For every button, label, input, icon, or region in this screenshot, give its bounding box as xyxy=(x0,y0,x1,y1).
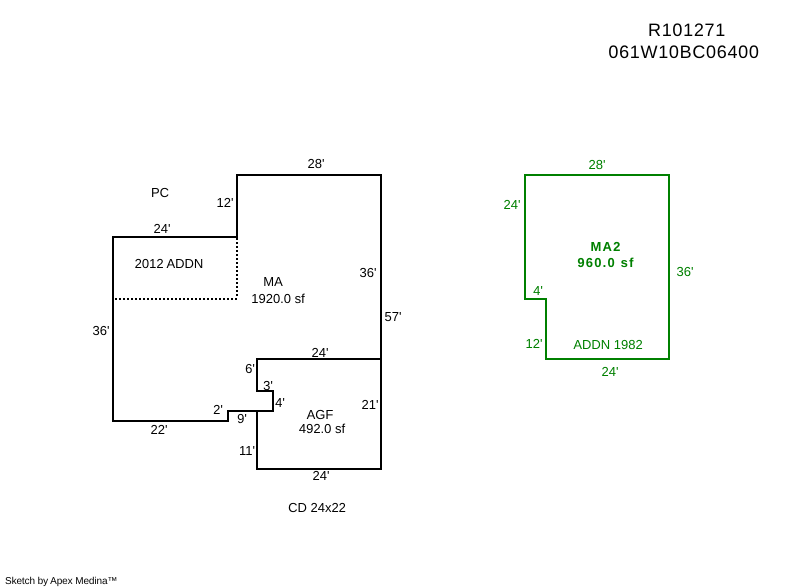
svg-text:11': 11' xyxy=(239,443,255,458)
svg-text:12': 12' xyxy=(526,336,543,351)
svg-text:492.0 sf: 492.0 sf xyxy=(299,421,346,436)
svg-text:36': 36' xyxy=(360,265,377,280)
svg-text:12': 12' xyxy=(217,195,234,210)
svg-text:960.0 sf: 960.0 sf xyxy=(577,255,634,270)
svg-text:1920.0 sf: 1920.0 sf xyxy=(251,291,305,306)
svg-text:24': 24' xyxy=(154,221,171,236)
svg-text:4': 4' xyxy=(533,283,543,298)
svg-text:28': 28' xyxy=(589,157,606,172)
svg-text:9': 9' xyxy=(237,411,247,426)
svg-text:36': 36' xyxy=(677,264,694,279)
svg-text:24': 24' xyxy=(602,364,619,379)
svg-text:PC: PC xyxy=(151,185,169,200)
svg-text:24': 24' xyxy=(504,197,521,212)
svg-text:24': 24' xyxy=(313,468,330,483)
svg-text:061W10BC06400: 061W10BC06400 xyxy=(608,42,759,62)
svg-text:MA2: MA2 xyxy=(590,239,621,254)
svg-text:R101271: R101271 xyxy=(648,20,726,40)
svg-text:4': 4' xyxy=(275,395,285,410)
svg-text:Sketch by Apex Medina™: Sketch by Apex Medina™ xyxy=(5,576,117,587)
svg-text:6': 6' xyxy=(245,361,255,376)
svg-text:57': 57' xyxy=(385,309,402,324)
svg-text:28': 28' xyxy=(308,156,325,171)
svg-text:3': 3' xyxy=(263,378,273,393)
svg-text:2': 2' xyxy=(213,402,223,417)
svg-text:36': 36' xyxy=(93,323,110,338)
svg-text:22': 22' xyxy=(151,422,168,437)
svg-text:21': 21' xyxy=(362,397,379,412)
svg-text:CD 24x22: CD 24x22 xyxy=(288,500,346,515)
svg-text:ADDN 1982: ADDN 1982 xyxy=(573,337,642,352)
svg-text:24': 24' xyxy=(312,345,329,360)
svg-text:2012 ADDN: 2012 ADDN xyxy=(135,256,204,271)
svg-text:MA: MA xyxy=(263,274,283,289)
svg-text:AGF: AGF xyxy=(307,407,334,422)
